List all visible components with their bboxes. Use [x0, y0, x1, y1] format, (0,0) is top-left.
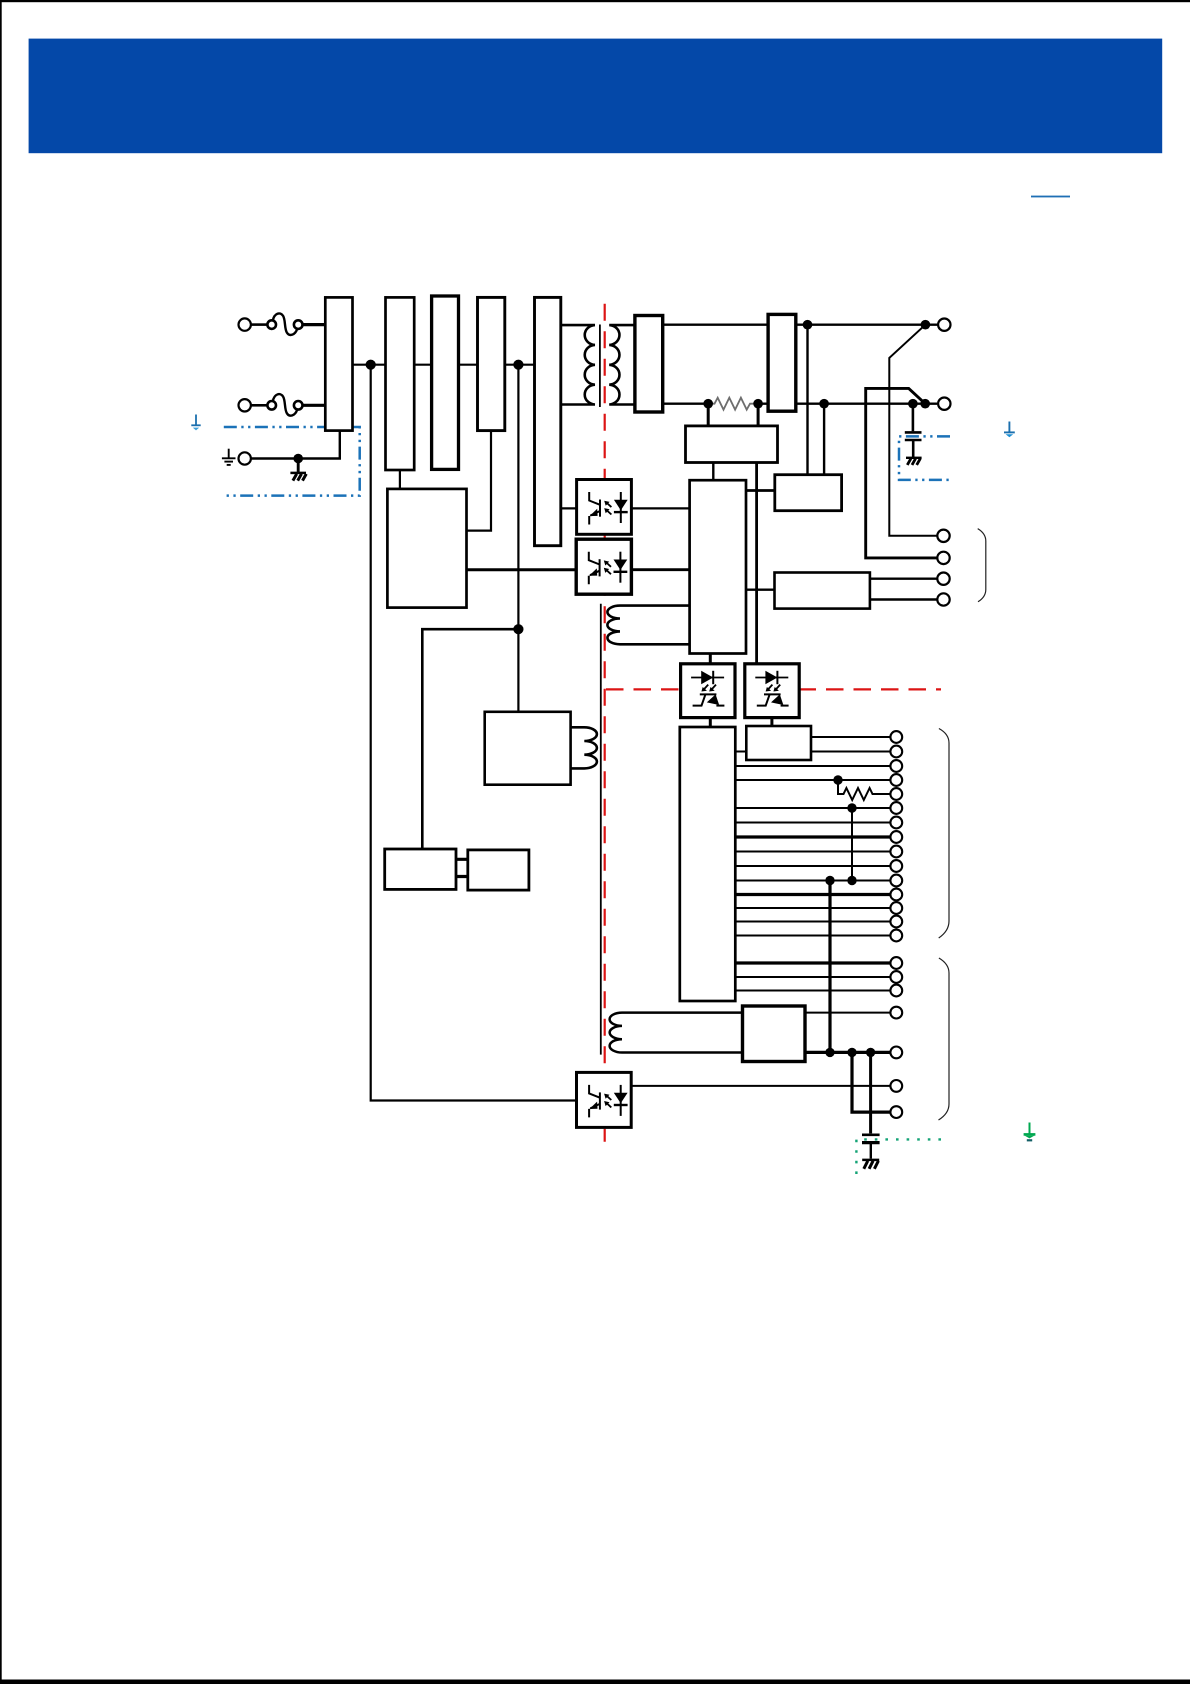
- block: output signal stage: [680, 727, 736, 1001]
- wire: opto U1 links: [561, 507, 690, 509]
- block: input fuse/filter stage 1: [325, 297, 352, 430]
- isolation barrier red dashed horizontal: [606, 688, 941, 690]
- block: alarm output: [775, 573, 870, 609]
- opto-coupler U4 (SSR drive): [745, 664, 799, 718]
- block: voltage detector: [775, 475, 842, 511]
- chassis ground: [906, 457, 922, 459]
- monitor terminal 3: [937, 573, 949, 585]
- output ground zone blue dash-dot box: [899, 436, 950, 480]
- wire: [303, 404, 326, 407]
- opto-coupler U2: [576, 539, 631, 594]
- wire pin13: [735, 907, 890, 909]
- wire: [251, 404, 267, 407]
- monitor terminal 2: [937, 552, 949, 564]
- sense wire 1: [889, 325, 937, 536]
- block: surge absorber: [386, 297, 415, 470]
- breaker F1: [267, 313, 302, 335]
- wire: common bold down: [828, 881, 831, 1053]
- wire PE: [251, 431, 340, 459]
- wire: aux out top: [805, 1012, 890, 1014]
- wire: common drop to pin22: [852, 1052, 890, 1112]
- wire: rail taps to detector: [808, 325, 825, 475]
- earth symbol: [222, 449, 236, 465]
- block: rectifier: [478, 297, 505, 430]
- secondary ground zone green dotted L: [856, 1139, 941, 1177]
- junction: [866, 1048, 875, 1057]
- junction: [921, 320, 931, 330]
- wire pin8 bold: [735, 835, 890, 838]
- junction: [753, 399, 763, 409]
- chassis ground: [862, 1159, 879, 1162]
- bottom transformer secondary winding: [610, 1013, 743, 1053]
- blue earth icon right: [1004, 422, 1015, 438]
- monitor terminal 1: [937, 530, 949, 542]
- wire pin9: [735, 851, 890, 853]
- wire: U3 to output block: [709, 718, 712, 727]
- capacitor C2 to ground: [862, 1052, 880, 1158]
- oscillator link bars: [456, 859, 468, 876]
- wire pin17: [735, 976, 890, 978]
- wire: -V rail to terminal: [796, 403, 937, 405]
- wire pin2: [735, 751, 890, 753]
- transformer T1 primary winding: [561, 325, 595, 404]
- terminals group 2: [890, 957, 902, 1118]
- signal wires group 1: [735, 737, 890, 936]
- block: aux supply with winding: [485, 712, 571, 785]
- blue earth icon left: [191, 415, 200, 431]
- junction node B: [513, 360, 523, 370]
- terminals group 1: [890, 731, 902, 941]
- wire pin4: [735, 779, 890, 781]
- page left border: [0, 0, 2, 1684]
- block: oscillator cap: [468, 850, 529, 890]
- wire: alarm outputs: [870, 579, 938, 600]
- block: relay driver: [746, 726, 811, 760]
- wire: node A down to opto3: [371, 365, 577, 1101]
- wire pin7: [735, 822, 890, 824]
- wire: surge block to PWM: [399, 470, 401, 489]
- junction: [825, 1048, 834, 1057]
- block: smoothing / switching: [535, 297, 561, 545]
- block: secondary control: [690, 480, 746, 653]
- wire pin14: [735, 921, 890, 923]
- junction node A: [366, 360, 376, 370]
- resistor R2: [838, 780, 874, 800]
- wire pin6: [735, 807, 890, 809]
- wire: +V rail to terminal: [796, 324, 938, 326]
- opto-coupler U5: [577, 1072, 632, 1127]
- wire: rectifier block to PWM: [467, 431, 492, 531]
- block: overvoltage detector: [686, 426, 778, 463]
- aux transformer secondary winding: [607, 606, 689, 645]
- wire: tap link: [851, 808, 853, 881]
- wire: detector to control: [712, 463, 714, 481]
- monitor terminal 4: [937, 593, 949, 605]
- wire: opto U2 to control: [631, 568, 689, 571]
- output terminal -V: [938, 398, 950, 410]
- junction: [293, 454, 303, 464]
- wire: aux out common bold: [805, 1051, 890, 1054]
- chassis ground: [290, 459, 306, 481]
- brace: signal group 2: [939, 958, 950, 1120]
- bus wire: [353, 364, 535, 366]
- transformer T1 core: [599, 325, 601, 408]
- wire pin16 bold: [735, 961, 890, 964]
- junction: [920, 399, 930, 409]
- opto-coupler U1: [577, 480, 632, 535]
- wire: long feedback line: [755, 463, 758, 664]
- sense wire 2: [866, 388, 938, 558]
- capacitor C1 to ground: [905, 404, 922, 458]
- wire: PWM to opto2: [467, 568, 577, 571]
- junction: [833, 775, 842, 784]
- input terminal L1: [239, 318, 251, 330]
- opto-coupler U3 (SSR drive): [681, 664, 735, 718]
- wire: control to voltage detector: [746, 489, 775, 492]
- aux/bottom transformer core: [600, 604, 602, 1055]
- junction: [825, 876, 834, 885]
- output terminal +V: [938, 319, 950, 331]
- brace: signal group 1: [939, 729, 949, 939]
- wire: -V rail: [663, 403, 768, 405]
- wire pin1: [811, 736, 890, 738]
- isolation barrier red dashed vertical: [604, 304, 606, 1142]
- block: noise filter: [432, 296, 459, 469]
- breaker F2: [267, 394, 302, 416]
- header blue band: [29, 39, 1163, 154]
- block: aux output rectifier: [743, 1006, 806, 1062]
- page top border: [0, 0, 1190, 2]
- junction: [908, 399, 918, 409]
- junction: [803, 320, 813, 330]
- wire pin5 via resistor: [874, 793, 890, 795]
- wire pin3: [735, 765, 890, 767]
- wire pin15: [735, 935, 890, 937]
- protective earth terminal: [239, 452, 251, 464]
- wire pin12 bold: [735, 893, 890, 896]
- wire: +V rail: [663, 324, 768, 326]
- wire: control to alarm: [746, 589, 775, 591]
- brace: monitor group: [978, 529, 986, 602]
- junction: [847, 1048, 856, 1057]
- wire: node C to oscillator: [422, 629, 518, 849]
- transformer T1 secondary winding: [609, 325, 635, 404]
- wire: control to opto U3 stub: [709, 654, 712, 664]
- signal wires group 2: [735, 963, 890, 991]
- wire: U4 to aux block: [770, 718, 773, 726]
- block: PWM control IC: [387, 489, 466, 608]
- header underline link: [1031, 196, 1070, 198]
- wire: U5 to pin21: [631, 1085, 890, 1087]
- page bottom border: [0, 1680, 1190, 1684]
- aux primary winding: [571, 727, 597, 768]
- wire pin11: [735, 880, 890, 882]
- wire pin10: [735, 865, 890, 867]
- green earth icon bottom right: [1024, 1123, 1036, 1141]
- junction: [819, 399, 829, 409]
- junction: [847, 876, 856, 885]
- wire: shunt taps to detector: [708, 404, 758, 426]
- AC input safety zone blue dash-dot box: [224, 427, 360, 496]
- wire: [251, 323, 267, 326]
- junction: [847, 803, 856, 812]
- block: output filter: [768, 314, 796, 411]
- junction: [703, 399, 713, 409]
- block: output rectifier: [635, 316, 663, 413]
- wire: [303, 323, 326, 326]
- block: oscillator: [385, 849, 456, 889]
- wire: node B down to aux converter: [517, 365, 519, 712]
- wire pin18: [735, 990, 890, 992]
- input terminal L2: [239, 399, 251, 411]
- junction node C: [513, 624, 523, 634]
- resistor R1 shunt: [711, 398, 755, 410]
